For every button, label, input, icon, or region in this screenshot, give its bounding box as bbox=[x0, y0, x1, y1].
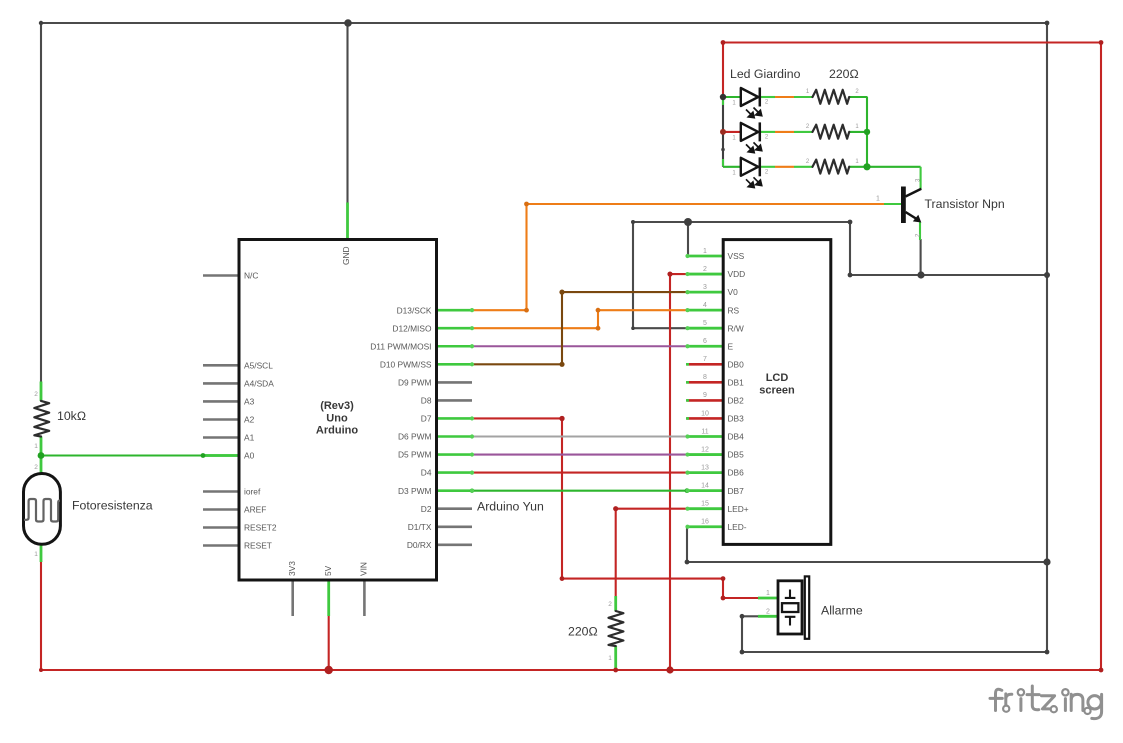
junction grey (742,652) bbox=[740, 650, 745, 655]
LCD pin 10 DB3 leg nub bbox=[686, 417, 689, 420]
junction green (41,455.5) bbox=[38, 452, 45, 459]
Arduino right pin leg D12/MISO bbox=[436, 327, 473, 330]
junction red (615.7,508.70000000000005) bbox=[613, 506, 618, 511]
svg-text:D0/RX: D0/RX bbox=[407, 540, 432, 550]
svg-text:9: 9 bbox=[703, 392, 707, 399]
svg-text:D6 PWM: D6 PWM bbox=[398, 432, 432, 442]
LED2 cathode bar bbox=[759, 122, 762, 141]
LED3 cathode bar bbox=[759, 157, 762, 176]
svg-text:D2: D2 bbox=[421, 504, 432, 514]
svg-text:12: 12 bbox=[701, 446, 709, 453]
leg end nubs Arduino right bbox=[470, 308, 474, 312]
wire D12 to RS bbox=[598, 309, 688, 311]
svg-text:1: 1 bbox=[703, 248, 707, 255]
wire piezo pin2 vertical bbox=[741, 616, 743, 652]
220 bottom resistor bottom leg bbox=[614, 646, 617, 670]
svg-text:13: 13 bbox=[701, 464, 709, 471]
LED column green nub top bbox=[722, 98, 724, 105]
bendpoint brown (562,292.1) bbox=[559, 290, 564, 295]
bendpoint orange (526.5,204) bbox=[524, 202, 529, 207]
junction grey (921,275) bbox=[917, 271, 924, 278]
LCD pin 6 E leg bbox=[687, 345, 724, 348]
junction green (867,166.8) bbox=[863, 163, 870, 170]
transistor Q1 emitter arrow bbox=[913, 215, 922, 223]
bendpoint brown (562,364.3) bbox=[559, 362, 564, 367]
wire LED+ horizontal bbox=[616, 508, 689, 510]
svg-text:2: 2 bbox=[765, 134, 769, 140]
junction grey (1047,652) bbox=[1045, 650, 1050, 655]
Arduino left pin leg A1 bbox=[203, 436, 240, 439]
LCD pin 15 LED+ leg bbox=[687, 507, 724, 510]
svg-text:A3: A3 bbox=[244, 397, 255, 407]
wire ground top rail bbox=[41, 22, 1047, 24]
wire LED+ vertical to resistor bbox=[615, 509, 617, 597]
Arduino left pin leg A4/SDA bbox=[203, 382, 240, 385]
wire 5V drop bbox=[328, 615, 330, 670]
svg-text:R/W: R/W bbox=[728, 323, 744, 333]
wire LED3 cathode leg bbox=[760, 166, 775, 168]
wire ground emitter rail bbox=[850, 274, 1047, 276]
leg end nubs LCD bbox=[685, 254, 689, 258]
transistor base leg bbox=[884, 203, 902, 205]
Arduino left pin leg A3 bbox=[203, 400, 240, 403]
svg-text:D4: D4 bbox=[421, 468, 432, 478]
wire LED1 anode bbox=[723, 96, 741, 98]
svg-text:(Rev3): (Rev3) bbox=[320, 400, 354, 412]
10k resistor bottom leg bbox=[40, 437, 43, 456]
svg-text:D1/TX: D1/TX bbox=[408, 522, 432, 532]
Arduino left pin leg A2 bbox=[203, 418, 240, 421]
wire D5 to DB5 bbox=[472, 453, 688, 455]
svg-text:DB1: DB1 bbox=[728, 377, 745, 387]
transistor emitter leg bbox=[919, 222, 921, 240]
junction grey (1047,562) bbox=[1043, 558, 1050, 565]
Arduino left pin leg A5/SCL bbox=[203, 364, 240, 367]
svg-text:Led Giardino: Led Giardino bbox=[730, 67, 801, 81]
wire LED cathode column bbox=[722, 97, 724, 167]
LCD pin 5 R/W leg bbox=[687, 327, 724, 330]
Arduino right pin leg D10 PWM/SS bbox=[436, 363, 473, 366]
svg-text:2: 2 bbox=[34, 464, 38, 471]
svg-text:ioref: ioref bbox=[244, 487, 261, 497]
Arduino right pin leg D5 PWM bbox=[436, 453, 473, 456]
junction grey (633,328.2) bbox=[631, 326, 635, 330]
svg-text:1: 1 bbox=[876, 196, 880, 203]
svg-text:Arduino Yun: Arduino Yun bbox=[477, 500, 544, 514]
svg-text:3V3: 3V3 bbox=[287, 561, 297, 576]
wire LED2 orange segment bbox=[775, 131, 794, 133]
wire D7 net bbox=[472, 418, 759, 598]
Arduino right pin leg D4 bbox=[436, 471, 473, 474]
Arduino right pin leg D13/SCK bbox=[436, 309, 473, 312]
junction red (615.7,670) bbox=[613, 668, 618, 673]
junction grey (348,23) bbox=[344, 19, 352, 27]
wire A0 rail bbox=[41, 454, 203, 456]
svg-text:D8: D8 bbox=[421, 396, 432, 406]
fritzing logo bbox=[990, 686, 1102, 719]
svg-text:DB3: DB3 bbox=[728, 414, 745, 424]
wire D4 to DB6 bbox=[472, 472, 689, 474]
wire D13 to transistor base segment1 bbox=[472, 309, 527, 311]
piezo SP1 disc bar bbox=[805, 576, 809, 638]
svg-text:D10 PWM/SS: D10 PWM/SS bbox=[380, 359, 432, 369]
LED1 cathode bar bbox=[759, 88, 762, 107]
junction red (328.7,670) bbox=[325, 666, 333, 674]
svg-text:Allarme: Allarme bbox=[821, 604, 863, 618]
svg-text:N/C: N/C bbox=[244, 271, 258, 281]
Arduino GND pin leg bbox=[346, 203, 349, 240]
wire R/W vertical bbox=[632, 222, 634, 329]
svg-text:220Ω: 220Ω bbox=[568, 625, 598, 639]
Arduino 3V3 pin leg bbox=[291, 580, 294, 616]
transistor collector leg bbox=[920, 167, 922, 189]
LED2 triangle bbox=[741, 123, 758, 141]
Arduino left pin leg A0 bbox=[203, 454, 240, 457]
piezo SP1 body bbox=[778, 581, 802, 634]
piezo pin 1 leg bbox=[758, 597, 778, 600]
svg-text:D9 PWM: D9 PWM bbox=[398, 378, 432, 388]
junction red (562,578.6) bbox=[560, 576, 565, 581]
wire DB2 stub bbox=[687, 399, 725, 402]
LED1 light arrows bbox=[746, 108, 762, 118]
svg-text:D7: D7 bbox=[421, 414, 432, 424]
svg-text:2: 2 bbox=[703, 266, 707, 273]
wire LED- horizontal bbox=[687, 561, 1047, 563]
svg-text:2: 2 bbox=[806, 159, 810, 165]
svg-text:DB0: DB0 bbox=[728, 359, 745, 369]
wire D10 vertical bbox=[561, 292, 563, 364]
svg-text:D13/SCK: D13/SCK bbox=[397, 305, 432, 315]
svg-text:1: 1 bbox=[732, 170, 736, 176]
svg-text:7: 7 bbox=[703, 356, 707, 363]
junction grey (688,222) bbox=[684, 218, 692, 226]
wire D12 horizontal bbox=[472, 327, 598, 329]
svg-text:GND: GND bbox=[341, 246, 351, 265]
svg-text:screen: screen bbox=[759, 385, 795, 397]
svg-text:E: E bbox=[728, 341, 734, 351]
wire resistor R3 input leg bbox=[794, 166, 813, 168]
wire ground bend down at x=850 bbox=[849, 222, 851, 275]
resistor R1 10k zigzag bbox=[34, 401, 49, 437]
Arduino 5V pin leg bbox=[327, 580, 330, 616]
LCD pin 11 DB4 leg bbox=[687, 435, 724, 438]
junction grey (1047,23) bbox=[1045, 21, 1050, 26]
svg-text:1: 1 bbox=[608, 655, 612, 662]
wire D10 horizontal bbox=[472, 363, 562, 365]
junction grey (633,222) bbox=[631, 220, 635, 224]
wire Arduino GND drop bbox=[346, 23, 348, 203]
Arduino left pin leg ioref bbox=[203, 490, 240, 493]
svg-text:D3 PWM: D3 PWM bbox=[398, 486, 432, 496]
LED column green nub bottom bbox=[722, 159, 724, 166]
wire ground right vertical bbox=[1046, 23, 1048, 652]
svg-text:DB4: DB4 bbox=[728, 432, 745, 442]
junction grey (687,562) bbox=[685, 560, 690, 565]
wire LED2 anode stub bbox=[723, 131, 741, 133]
junction grey (742,616.3) bbox=[740, 614, 745, 619]
junction green (472,490.65) bbox=[470, 488, 474, 492]
LCD pin 8 DB1 leg nub bbox=[686, 381, 689, 384]
wire D3 to DB7 bbox=[437, 490, 724, 492]
LED2 light arrows bbox=[746, 142, 762, 152]
transistor Q1 collector line bbox=[906, 189, 922, 197]
svg-text:1: 1 bbox=[766, 590, 770, 597]
wire D10 to V0 bbox=[562, 291, 688, 293]
wire D6 to DB4 bbox=[472, 435, 688, 437]
wire R/W horizontal bbox=[633, 327, 688, 329]
LCD pin 9 DB2 leg nub bbox=[686, 399, 689, 402]
svg-text:10kΩ: 10kΩ bbox=[57, 409, 86, 423]
A0 pin leg bbox=[203, 454, 240, 457]
junction LED column top bbox=[720, 94, 726, 100]
Arduino right pin leg D9 PWM bbox=[436, 381, 473, 384]
wire LED- vertical bbox=[686, 528, 688, 562]
svg-text:DB5: DB5 bbox=[728, 450, 745, 460]
LCD pin 2 VDD leg bbox=[687, 273, 724, 276]
LCD pin 7 DB0 leg nub bbox=[686, 363, 689, 366]
wire LED3 orange segment bbox=[775, 166, 794, 168]
Arduino right pin leg D7 bbox=[436, 417, 473, 420]
junction red (723,42.5) bbox=[721, 40, 726, 45]
svg-text:16: 16 bbox=[701, 519, 709, 526]
svg-text:AREF: AREF bbox=[244, 505, 266, 515]
wire to transistor collector bbox=[867, 166, 921, 168]
LCD pin 1 VSS leg bbox=[687, 255, 724, 258]
piezo SP1 crystal rect bbox=[782, 603, 798, 612]
piezo pin 2 leg bbox=[758, 615, 778, 618]
svg-text:1: 1 bbox=[732, 101, 736, 107]
junction red (562,418.45) bbox=[559, 416, 564, 421]
transistor Q1 emitter line bbox=[906, 212, 918, 220]
wire resistor R1 input leg bbox=[794, 96, 813, 98]
junction LED2 anode bbox=[720, 129, 726, 135]
svg-text:Fotoresistenza: Fotoresistenza bbox=[72, 499, 153, 513]
svg-text:D12/MISO: D12/MISO bbox=[392, 323, 432, 333]
svg-text:1: 1 bbox=[855, 159, 859, 165]
wire DB3 stub bbox=[687, 417, 725, 420]
svg-text:1: 1 bbox=[855, 124, 859, 130]
svg-text:A2: A2 bbox=[244, 415, 255, 425]
wire transistor emitter drop bbox=[920, 239, 922, 275]
LCD pin 14 DB7 leg bbox=[687, 489, 724, 492]
junction grey (850,275) bbox=[848, 273, 853, 278]
LCD pin 16 LED- leg bbox=[687, 525, 724, 528]
photoresistor top leg bbox=[40, 456, 43, 475]
LCD pin 4 RS leg bbox=[687, 309, 724, 312]
LCD pin 3 V0 leg bbox=[687, 291, 724, 294]
Arduino left pin leg AREF bbox=[203, 508, 240, 511]
bendpoint orange (526.5,310.15) bbox=[524, 308, 529, 313]
piezo SP1 bottom plate symbol bbox=[785, 617, 796, 626]
wire resistor R1 output bbox=[849, 96, 868, 98]
svg-text:10: 10 bbox=[701, 410, 709, 417]
svg-text:A5/SCL: A5/SCL bbox=[244, 360, 273, 370]
wire LED1 cathode leg bbox=[760, 96, 775, 98]
Arduino right pin leg D11 PWM/MOSI bbox=[436, 345, 473, 348]
svg-text:LED+: LED+ bbox=[728, 504, 749, 514]
junction red (723,598) bbox=[721, 596, 726, 601]
wire piezo pin2 stub bbox=[742, 615, 758, 617]
wire power top rail bbox=[723, 41, 1101, 43]
svg-text:4: 4 bbox=[703, 302, 707, 309]
Arduino VIN pin leg bbox=[363, 580, 366, 616]
Arduino right pin leg D3 PWM bbox=[436, 489, 473, 492]
LED1 triangle bbox=[741, 88, 758, 106]
svg-text:14: 14 bbox=[701, 482, 709, 489]
svg-text:VIN: VIN bbox=[359, 562, 369, 576]
photoresistor LDR1 meander bbox=[24, 499, 60, 522]
wire LED2 cathode leg bbox=[760, 131, 775, 133]
junction green (687,490.65) bbox=[685, 488, 690, 493]
wire VSS drop bbox=[687, 222, 689, 256]
svg-text:1: 1 bbox=[806, 89, 810, 95]
wire LED1 orange segment bbox=[775, 96, 794, 98]
Arduino left pin leg RESET bbox=[203, 544, 240, 547]
svg-text:A4/SDA: A4/SDA bbox=[244, 379, 274, 389]
Arduino Uno U1 body bbox=[239, 240, 437, 581]
junction grey (1047,275) bbox=[1044, 272, 1050, 278]
svg-text:5: 5 bbox=[703, 320, 707, 327]
resistor R5 220 bottom zigzag bbox=[609, 611, 624, 646]
LCD screen U2 body bbox=[723, 240, 831, 545]
svg-text:2: 2 bbox=[765, 169, 769, 175]
bendpoint orange (598,310.15) bbox=[596, 308, 601, 313]
svg-text:D5 PWM: D5 PWM bbox=[398, 450, 432, 460]
LCD pin 13 DB6 leg bbox=[687, 471, 724, 474]
LED3 triangle bbox=[741, 158, 758, 176]
wire DB0 stub bbox=[687, 363, 725, 366]
wire DB1 stub bbox=[687, 381, 725, 384]
wire resistor R3 output bbox=[849, 166, 868, 168]
wire ground left vertical bbox=[40, 23, 42, 382]
wire resistor R2 output bbox=[849, 131, 868, 133]
svg-text:Uno: Uno bbox=[326, 413, 348, 425]
svg-text:Arduino: Arduino bbox=[316, 425, 358, 437]
svg-text:RESET2: RESET2 bbox=[244, 523, 277, 533]
svg-text:DB6: DB6 bbox=[728, 468, 745, 478]
wire power left vertical bbox=[40, 561, 42, 670]
photoresistor bottom leg bbox=[40, 544, 43, 562]
junction grey (41,23) bbox=[39, 21, 43, 25]
svg-text:VSS: VSS bbox=[728, 251, 745, 261]
junction red (723,578.6) bbox=[721, 576, 726, 581]
wire resistor outputs vertical bbox=[866, 97, 868, 167]
Arduino left pin leg N/C bbox=[203, 274, 240, 277]
wire piezo pin2 bottom horizontal bbox=[742, 651, 1047, 653]
junction red (670,274.05) bbox=[667, 271, 672, 276]
Arduino left pin leg RESET2 bbox=[203, 526, 240, 529]
svg-text:DB7: DB7 bbox=[728, 486, 745, 496]
svg-text:220Ω: 220Ω bbox=[829, 67, 859, 81]
10k resistor top leg bbox=[40, 382, 43, 402]
junction grey (723,149.5) bbox=[721, 148, 725, 152]
svg-text:LED-: LED- bbox=[728, 522, 747, 532]
Arduino right pin leg D6 PWM bbox=[436, 435, 473, 438]
Arduino right pin leg D2 bbox=[436, 507, 473, 510]
junction green (203,455.5) bbox=[201, 453, 206, 458]
junction red (1101,42.5) bbox=[1099, 40, 1104, 45]
LCD pin 12 DB5 leg bbox=[687, 453, 724, 456]
svg-text:2: 2 bbox=[855, 89, 859, 95]
wire VDD vertical bbox=[669, 274, 671, 670]
svg-text:11: 11 bbox=[701, 428, 708, 435]
transistor Q1 bar bbox=[901, 187, 906, 224]
svg-text:6: 6 bbox=[703, 338, 707, 345]
resistor R3 220 zigzag bbox=[813, 125, 850, 139]
svg-text:Transistor Npn: Transistor Npn bbox=[925, 197, 1005, 211]
wire D11 to E bbox=[472, 345, 688, 347]
svg-text:RS: RS bbox=[728, 305, 740, 315]
svg-text:DB2: DB2 bbox=[728, 396, 745, 406]
svg-text:1: 1 bbox=[34, 443, 38, 450]
wire D13 vertical bbox=[525, 204, 527, 310]
svg-text:D11 PWM/MOSI: D11 PWM/MOSI bbox=[370, 341, 431, 351]
svg-text:RESET: RESET bbox=[244, 541, 272, 551]
svg-text:2: 2 bbox=[806, 124, 810, 130]
svg-text:8: 8 bbox=[703, 374, 707, 381]
svg-text:A0: A0 bbox=[244, 451, 255, 461]
resistor R2 220 zigzag bbox=[813, 90, 850, 104]
wire D12 vertical bbox=[597, 310, 599, 328]
wire ground LCD-top rail bbox=[633, 221, 850, 223]
resistor R4 220 zigzag bbox=[813, 160, 850, 174]
Arduino right pin leg D1/TX bbox=[436, 525, 473, 528]
Arduino right pin leg D8 bbox=[436, 399, 473, 402]
LED3 light arrows bbox=[746, 177, 762, 187]
junction grey (850,222) bbox=[848, 220, 853, 225]
svg-text:3: 3 bbox=[703, 284, 707, 291]
junction green (867,131.9) bbox=[864, 129, 870, 135]
wire power right vertical bbox=[1100, 43, 1102, 671]
junction red (670,670) bbox=[666, 666, 673, 673]
wire D13 to base horizontal bbox=[527, 203, 885, 205]
Arduino right pin leg D0/RX bbox=[436, 543, 473, 546]
svg-text:LCD: LCD bbox=[766, 372, 789, 384]
svg-text:1: 1 bbox=[34, 551, 38, 558]
wire power bottom rail bbox=[41, 669, 1101, 671]
svg-text:2: 2 bbox=[766, 609, 770, 616]
220 bottom resistor top leg bbox=[614, 596, 617, 611]
svg-text:5V: 5V bbox=[323, 565, 333, 576]
wire LED3 anode bbox=[723, 166, 741, 168]
wire VDD horizontal bbox=[670, 273, 689, 275]
piezo SP1 top plate symbol bbox=[785, 590, 796, 598]
wire LED column top feed bbox=[722, 43, 724, 98]
svg-text:15: 15 bbox=[701, 501, 709, 508]
svg-text:A1: A1 bbox=[244, 433, 255, 443]
svg-text:2: 2 bbox=[765, 100, 769, 106]
wire resistor R2 input leg bbox=[794, 131, 813, 133]
svg-text:1: 1 bbox=[732, 135, 736, 141]
bendpoint orange (598,328.2) bbox=[596, 326, 601, 331]
svg-text:VDD: VDD bbox=[728, 269, 746, 279]
svg-text:2: 2 bbox=[608, 601, 612, 608]
junction red (562,418.5) bbox=[559, 416, 564, 421]
junction red (41,670) bbox=[39, 668, 43, 672]
svg-text:2: 2 bbox=[34, 391, 38, 398]
junction red (1101,670) bbox=[1099, 668, 1104, 673]
photoresistor LDR1 body bbox=[24, 474, 61, 545]
svg-text:V0: V0 bbox=[728, 287, 739, 297]
